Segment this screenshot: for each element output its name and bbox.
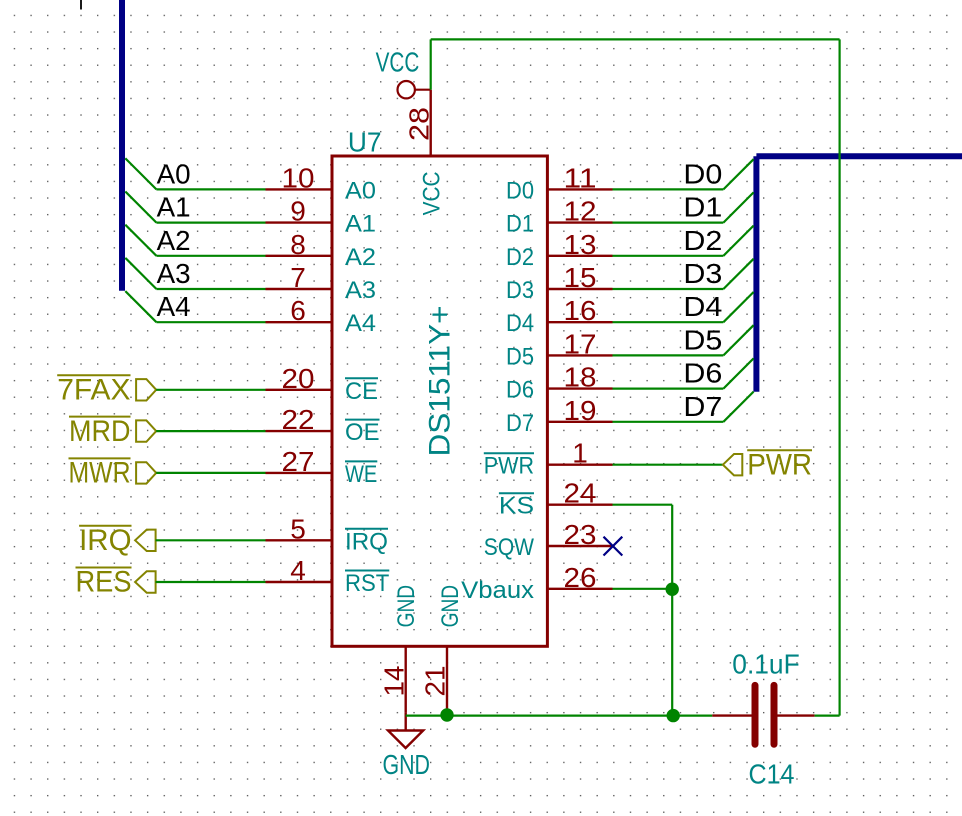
svg-text:20: 20 (282, 363, 315, 394)
svg-text:A4: A4 (157, 291, 191, 322)
svg-text:OE: OE (345, 419, 380, 446)
svg-text:D4: D4 (506, 310, 534, 337)
svg-text:26: 26 (564, 562, 597, 593)
svg-text:5: 5 (290, 513, 306, 544)
svg-text:D2: D2 (683, 225, 722, 256)
svg-text:8: 8 (290, 229, 306, 260)
svg-text:WE: WE (345, 461, 377, 488)
svg-text:A3: A3 (157, 258, 191, 289)
svg-text:IRQ: IRQ (345, 528, 388, 555)
svg-text:D4: D4 (683, 291, 722, 322)
svg-text:A1: A1 (157, 192, 191, 223)
svg-text:6: 6 (290, 295, 306, 326)
svg-text:C14: C14 (749, 758, 795, 789)
svg-text:CE: CE (345, 378, 378, 405)
svg-text:GND: GND (393, 585, 420, 628)
svg-text:19: 19 (564, 395, 597, 426)
svg-text:4: 4 (290, 555, 306, 586)
svg-text:13: 13 (564, 229, 597, 260)
svg-text:A2: A2 (157, 225, 191, 256)
svg-text:RST: RST (345, 570, 390, 597)
svg-text:Vbaux: Vbaux (461, 577, 534, 604)
svg-text:D1: D1 (506, 211, 534, 238)
svg-text:14: 14 (378, 666, 409, 697)
svg-text:11: 11 (564, 162, 597, 193)
svg-text:D3: D3 (683, 258, 722, 289)
svg-text:16: 16 (564, 295, 597, 326)
svg-text:12: 12 (564, 196, 597, 227)
svg-text:A1: A1 (345, 211, 376, 238)
svg-text:D6: D6 (506, 377, 534, 404)
svg-text:D2: D2 (506, 244, 534, 271)
svg-text:D3: D3 (506, 277, 534, 304)
svg-text:RES: RES (76, 566, 132, 599)
svg-text:GND: GND (437, 585, 464, 628)
svg-text:18: 18 (564, 362, 597, 393)
svg-text:0.1uF: 0.1uF (732, 649, 799, 680)
svg-text:28: 28 (403, 107, 434, 141)
svg-text:PWR: PWR (747, 448, 812, 481)
svg-text:D1: D1 (683, 192, 722, 223)
svg-text:17: 17 (564, 328, 597, 359)
svg-text:7: 7 (290, 262, 306, 293)
svg-text:24: 24 (564, 478, 597, 509)
svg-text:A0: A0 (345, 177, 376, 204)
svg-text:27: 27 (282, 446, 315, 477)
svg-text:10: 10 (282, 162, 315, 193)
svg-text:D0: D0 (683, 158, 722, 189)
svg-text:U7: U7 (348, 126, 382, 157)
svg-text:VCC: VCC (418, 171, 445, 215)
svg-text:D7: D7 (683, 391, 722, 422)
svg-text:GND: GND (383, 749, 431, 780)
svg-text:MRD: MRD (69, 415, 131, 448)
svg-text:SQW: SQW (484, 534, 535, 561)
svg-text:7FAX: 7FAX (57, 374, 130, 407)
svg-text:D6: D6 (683, 358, 722, 389)
svg-text:D5: D5 (683, 324, 722, 355)
svg-text:A0: A0 (157, 158, 191, 189)
svg-text:D5: D5 (506, 343, 534, 370)
svg-text:D7: D7 (506, 410, 534, 437)
svg-text:A2: A2 (345, 244, 376, 271)
svg-text:IRQ: IRQ (79, 524, 131, 557)
svg-text:15: 15 (564, 262, 597, 293)
svg-text:A4: A4 (345, 310, 376, 337)
svg-text:1: 1 (572, 438, 588, 469)
svg-text:21: 21 (420, 666, 451, 697)
svg-text:DS1511Y+: DS1511Y+ (423, 306, 456, 457)
svg-text:9: 9 (290, 196, 306, 227)
svg-text:VCC: VCC (376, 47, 420, 78)
svg-text:D0: D0 (506, 177, 534, 204)
svg-text:A3: A3 (345, 277, 376, 304)
svg-text:23: 23 (564, 519, 597, 550)
svg-text:KS: KS (499, 493, 534, 520)
svg-text:PWR: PWR (484, 453, 534, 480)
svg-text:MWR: MWR (69, 457, 131, 490)
svg-text:22: 22 (282, 404, 315, 435)
